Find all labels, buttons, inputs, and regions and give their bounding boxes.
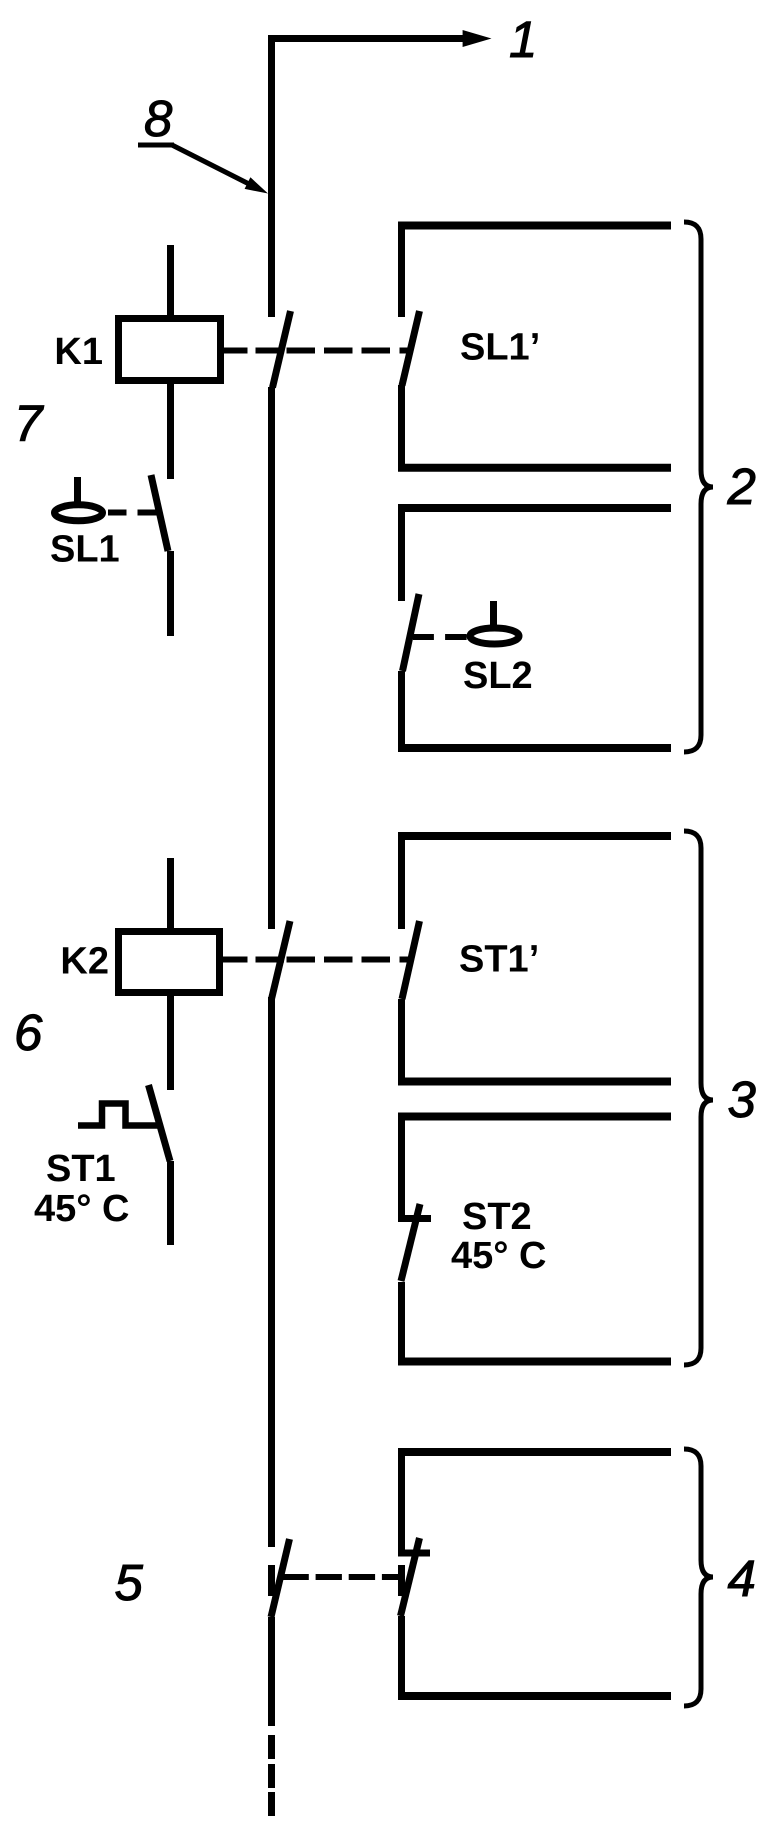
- svg-text:ST1: ST1: [46, 1148, 116, 1190]
- wire: loop 3 upper box top line: [398, 832, 671, 840]
- wire: loop 2 lower box top line: [398, 504, 671, 512]
- svg-text:ST2: ST2: [462, 1196, 532, 1238]
- mechanical link K2 to ST1' (dashed): [223, 957, 409, 963]
- brace for group 3: [684, 831, 713, 1365]
- brace for group 4: [684, 1449, 713, 1706]
- wire: ST1 lower lead: [167, 1161, 174, 1245]
- svg-text:SL1: SL1: [50, 529, 120, 571]
- float switch SL1 sensor (ellipse): [55, 505, 103, 521]
- svg-text:1: 1: [509, 11, 537, 68]
- switch ST1 contact blade: [149, 1085, 171, 1161]
- wire: control bus 8, upper segment: [268, 35, 275, 317]
- svg-text:ST1’: ST1’: [459, 939, 539, 981]
- thermal switch ST1 actuator (step symbol): [78, 1104, 159, 1126]
- wire: loop 3 lower box top line: [398, 1113, 671, 1121]
- wire: loop 3 lower box bottom line: [398, 1358, 671, 1366]
- svg-text:2: 2: [727, 458, 756, 515]
- switch SL1 contact blade: [151, 475, 168, 551]
- contact 5 lower terminal bar: [268, 1565, 275, 1596]
- svg-text:3: 3: [728, 1071, 756, 1128]
- wire: K2 coil bottom lead: [167, 996, 174, 1090]
- wire: loop 4 box bottom line: [398, 1692, 671, 1700]
- svg-text:5: 5: [115, 1554, 144, 1611]
- wire: SL1 lower lead: [167, 551, 174, 636]
- contact of K1 on bus (blade): [273, 311, 291, 388]
- wire: loop 2 lower box bottom line: [398, 744, 671, 752]
- switch SL2 contact (in loop 2 lower box): [402, 504, 420, 752]
- mechanical link K1 to SL1' (dashed): [224, 348, 409, 354]
- float switch SL2 sensor (ellipse): [470, 628, 519, 644]
- svg-text:SL1’: SL1’: [460, 327, 540, 369]
- thermal switch ST2 (in loop 3 lower box): [398, 1113, 431, 1365]
- svg-text:45° C: 45° C: [451, 1235, 546, 1277]
- svg-text:7: 7: [14, 395, 44, 452]
- svg-text:SL2: SL2: [463, 655, 533, 697]
- wire: K1 coil bottom lead: [167, 384, 174, 479]
- wire: control bus 8, middle segment: [268, 387, 275, 929]
- switch in loop 4 (thermal style contact): [398, 1448, 430, 1700]
- wire: loop 3 upper box bottom line: [398, 1078, 671, 1086]
- wire: control bus 8, lower segment: [268, 997, 275, 1547]
- contact of K2 on bus (blade): [272, 921, 291, 999]
- wire: loop 2 upper box bottom line: [398, 464, 671, 472]
- contact 5 on bus (blade): [271, 1539, 290, 1617]
- wire: leader line from label 8 to bus: [138, 145, 268, 194]
- svg-text:8: 8: [144, 90, 173, 147]
- wire: control bus 8, dashed continuation: [268, 1735, 275, 1816]
- relay coil K1: [119, 319, 221, 381]
- brace for group 2: [684, 222, 713, 752]
- svg-text:4: 4: [728, 1550, 756, 1607]
- svg-text:6: 6: [14, 1004, 43, 1061]
- wire: SL1 float stem: [74, 477, 81, 503]
- svg-text:K1: K1: [54, 331, 103, 373]
- mechanical link SL2 (dashed): [413, 634, 467, 640]
- mechanical link SL1 float to contact (dashed): [108, 510, 157, 516]
- svg-text:K2: K2: [60, 941, 109, 983]
- wire: SL2 float stem: [490, 601, 497, 625]
- wire: loop 4 box top line: [398, 1448, 671, 1456]
- switch ST1' (in loop 3 upper box): [402, 832, 420, 1085]
- wire: loop 2 upper box top line: [398, 222, 671, 230]
- wire: control bus 8, bottom solid segment: [268, 1617, 275, 1726]
- svg-text:45° C: 45° C: [34, 1188, 129, 1230]
- wire: K2 coil top lead: [167, 858, 174, 932]
- mechanical link contact 5 to loop 4 switch (dashed): [279, 1574, 399, 1580]
- wire: supply line to node 1 (top horizontal with arrow): [268, 30, 492, 47]
- relay coil K2: [119, 932, 220, 993]
- switch SL1' (in loop 2 upper box): [402, 222, 420, 471]
- wire: K1 coil top lead: [167, 245, 174, 319]
